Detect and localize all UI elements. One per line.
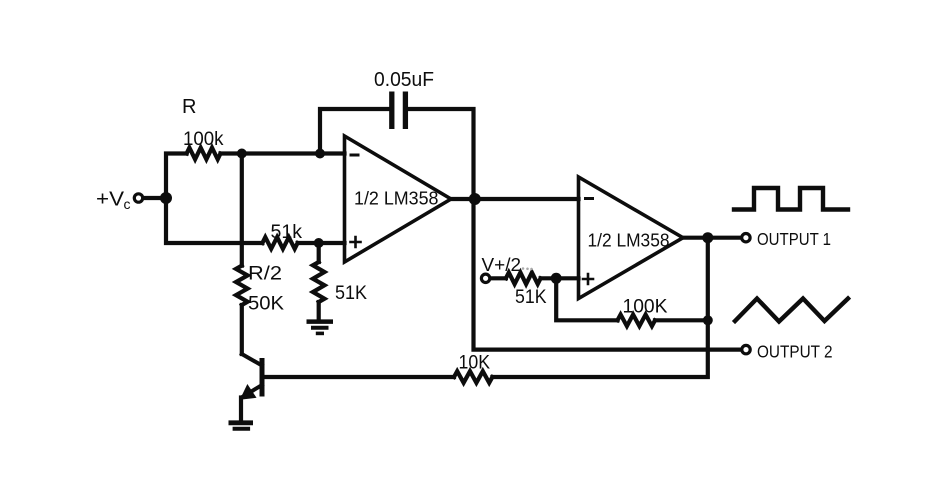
node J1	[160, 192, 172, 204]
svg-text:+V: +V	[96, 189, 125, 211]
wire	[240, 154, 244, 266]
svg-text:R: R	[182, 96, 196, 118]
wire	[491, 276, 506, 280]
capacitor C1	[392, 92, 406, 130]
wire	[298, 241, 319, 245]
pin + (U1)	[351, 237, 361, 247]
svg-text:V+/2: V+/2	[482, 255, 522, 275]
wire	[408, 109, 473, 199]
terminal V+/2	[481, 274, 489, 282]
wire	[541, 276, 557, 280]
ground	[307, 322, 334, 334]
ground	[229, 423, 254, 429]
pin - (U2)	[586, 197, 593, 200]
node J8	[703, 315, 713, 325]
wire	[556, 278, 617, 320]
svg-text:R/2: R/2	[248, 264, 282, 285]
svg-text:10K: 10K	[459, 353, 491, 374]
svg-text:OUTPUT 1: OUTPUT 1	[757, 229, 831, 249]
svg-text:100K: 100K	[623, 297, 668, 318]
wire	[320, 151, 345, 155]
op-amp U2	[579, 177, 684, 299]
resistor R7	[454, 371, 492, 383]
triangle wave icon	[735, 299, 848, 322]
terminal OUTPUT2	[742, 345, 750, 353]
pin - (U1)	[351, 154, 358, 157]
wire	[262, 375, 454, 379]
wire	[655, 318, 708, 322]
wire	[239, 398, 243, 422]
resistor R3	[236, 266, 248, 305]
wire	[451, 197, 579, 201]
wire	[317, 302, 321, 320]
svg-text:100k: 100k	[183, 129, 224, 150]
resistor R4	[313, 262, 325, 302]
wire	[556, 276, 578, 280]
pin + (U2)	[583, 274, 593, 284]
resistor R6	[618, 315, 656, 327]
faint dots after V+/2	[522, 267, 533, 270]
svg-text:50K: 50K	[248, 294, 284, 315]
wire	[221, 151, 242, 155]
svg-text:c: c	[124, 196, 131, 212]
svg-text:51K: 51K	[335, 283, 367, 304]
wire	[492, 238, 707, 377]
wire	[319, 241, 345, 245]
svg-text:51k: 51k	[271, 222, 303, 243]
transistor Q1	[242, 354, 263, 399]
wire	[242, 151, 320, 155]
node J7	[702, 232, 713, 243]
svg-text:51K: 51K	[515, 287, 547, 308]
wire	[144, 196, 167, 200]
node J3	[315, 149, 325, 159]
terminal OUTPUT1	[742, 234, 750, 242]
node J4	[314, 238, 324, 248]
resistor R1	[187, 148, 221, 160]
svg-text:1/2 LM358: 1/2 LM358	[588, 231, 670, 251]
square wave icon	[734, 188, 848, 210]
op-amp U1	[345, 136, 452, 262]
terminal +Vc	[134, 194, 142, 202]
svg-text:0.05uF: 0.05uF	[374, 68, 434, 91]
resistor R5	[506, 273, 541, 285]
wire	[166, 154, 187, 199]
wire	[474, 199, 747, 350]
wire	[683, 236, 746, 240]
node J5	[469, 193, 481, 205]
svg-text:OUTPUT 2: OUTPUT 2	[757, 342, 833, 362]
node J6	[551, 273, 562, 284]
resistor R2	[262, 237, 297, 249]
wire	[240, 305, 244, 354]
node J2	[237, 149, 247, 159]
wire	[320, 109, 389, 154]
wire	[166, 198, 262, 243]
wire	[317, 243, 321, 262]
svg-text:1/2 LM358: 1/2 LM358	[354, 189, 439, 209]
